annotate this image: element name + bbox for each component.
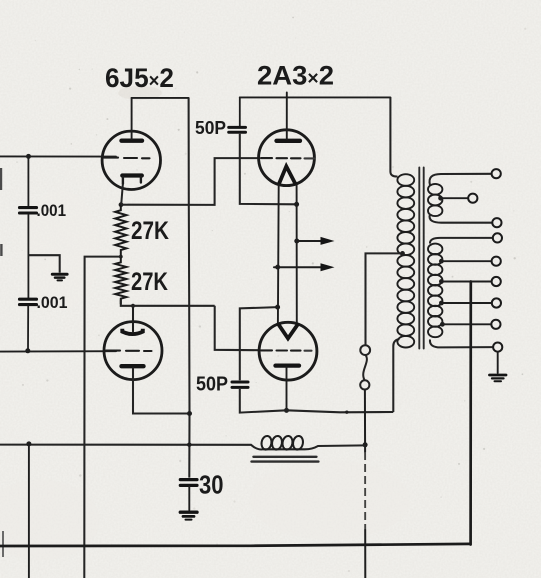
transformer T1 primary winding — [397, 174, 414, 347]
wire filament lead left — [277, 185, 280, 324]
node R1/R2 midpoint — [119, 255, 123, 259]
triode V2b (2A3 lower) envelope — [259, 322, 317, 380]
svg-text:6J5×2: 6J5×2 — [105, 63, 174, 93]
wire C4 to plate bus — [240, 389, 393, 413]
node plate wire / vertical bus junction — [187, 411, 192, 416]
node bridge / filament left junction — [275, 305, 280, 310]
terminal 8 — [491, 320, 500, 329]
terminal 6 — [492, 277, 501, 286]
wire secondary B tap 1 — [439, 259, 491, 264]
wire B+ rail through choke — [0, 445, 365, 450]
svg-text:.001: .001 — [37, 294, 68, 312]
transformer T1 core — [419, 168, 423, 349]
wire rail down to C3 — [239, 97, 241, 125]
svg-text:50P: 50P — [195, 118, 226, 138]
wire secondary B tap 4 — [440, 322, 491, 327]
triode V1b cathode (top) — [122, 329, 143, 334]
terminal 5 — [492, 257, 501, 266]
triode V2a grid dashes — [261, 157, 315, 159]
wire 2A3 top rail — [240, 96, 391, 98]
node cathode V1a / R1 junction — [119, 202, 124, 207]
wire plate bus up to primary bottom — [393, 339, 399, 412]
wire secondary B tap 3 — [439, 301, 492, 306]
svg-text:50P: 50P — [196, 374, 228, 396]
terminal 7 — [492, 298, 501, 307]
wire secondary B top lead — [430, 238, 493, 244]
wire V1a grid input — [0, 155, 116, 157]
resistor R2 27K — [115, 257, 126, 304]
node primary tap — [400, 251, 405, 256]
wire left tap down off-page — [28, 444, 30, 578]
terminal 1 — [492, 169, 501, 178]
triode V2a filament — [279, 166, 296, 184]
wire secondary A tap — [438, 196, 468, 201]
wire V2b plate lead down — [286, 367, 288, 410]
flexible link upper circle — [360, 345, 370, 355]
capacitor C1 .001 — [20, 208, 37, 213]
node V2b plate / bus junction — [284, 408, 289, 413]
transformer T1 secondary section A — [428, 184, 442, 216]
capacitor C3 50P — [229, 127, 246, 132]
svg-text:2A3×2: 2A3×2 — [257, 61, 334, 91]
svg-text:27K: 27K — [131, 268, 168, 296]
flexible link lower circle — [360, 380, 369, 389]
arrow filament supply 2 — [274, 263, 335, 271]
triode V2b grid dashes — [261, 349, 312, 351]
wire R1-R2 midpoint to left and down off-page — [84, 257, 121, 578]
wire V1b plate down and right — [133, 368, 190, 414]
arrow filament supply 1 — [297, 237, 335, 245]
wire R2 bottom to V1b rail — [121, 300, 215, 306]
ground (left small) — [52, 274, 67, 280]
node B+ rail left tap — [26, 441, 31, 446]
wire V1b top lead — [132, 306, 134, 332]
node V1b top junction — [131, 304, 135, 308]
triode V1a plate bar — [122, 138, 143, 142]
triode V2a plate bar — [277, 139, 301, 143]
ground (right) — [490, 375, 507, 381]
wire top rail down to primary top — [390, 97, 397, 176]
triode V1b plate bar (bottom) — [122, 364, 144, 368]
node grid1 / C1 junction — [26, 154, 31, 159]
triode V1a (6J5 upper) envelope — [102, 131, 160, 189]
wire secondary B bottom lead — [430, 340, 493, 348]
wire long vertical bus x=189 — [188, 98, 191, 478]
wire V1b grid input — [0, 350, 116, 352]
capacitor C4 50P — [232, 382, 248, 387]
wire bridge filament to C4 — [240, 307, 278, 380]
node C2 / grid2 junction — [25, 348, 30, 353]
capacitor C2 .001 — [20, 299, 37, 304]
node arrow2 junction — [275, 265, 280, 270]
triode V1b (6J5 lower) envelope — [104, 322, 162, 380]
terminal 4 — [493, 233, 502, 242]
wire: scan edge artifacts left border — [1, 168, 3, 557]
wire C2 to grid2 — [27, 306, 29, 351]
ground (below C5) — [180, 512, 197, 519]
svg-text:.001: .001 — [37, 202, 67, 220]
wire V2a plate to rail with overshoot — [286, 93, 288, 140]
node 30uF cap rail junction — [187, 443, 191, 447]
svg-text:30: 30 — [199, 470, 224, 500]
resistor R1 27K — [115, 205, 126, 256]
wire primary center tap — [366, 253, 403, 345]
triode V1a grid dashes — [104, 157, 150, 160]
wire C1 to C2 vertical — [27, 215, 29, 298]
wire terminal 9 to ground — [497, 352, 499, 373]
triode V2a (2A3 upper) envelope — [259, 130, 315, 186]
wire ground branch — [28, 255, 59, 272]
wire C5 to ground — [188, 487, 190, 510]
triode V2b filament (V at top) — [278, 324, 299, 339]
node B+ rail / tap junction — [363, 442, 368, 447]
node bus blob — [345, 410, 348, 413]
wire bottom ground bus — [0, 544, 470, 546]
wire secondary B tap 2 — [439, 279, 491, 284]
wire secondary A top lead — [429, 174, 491, 185]
wire filament lead right — [296, 185, 298, 323]
choke L1 winding — [260, 435, 304, 450]
wire V1a plate to top rail — [131, 98, 133, 139]
choke L1 core bars — [252, 457, 319, 462]
transformer T1 secondary section B — [428, 244, 442, 338]
triode V2b plate bar (bottom) — [276, 363, 300, 367]
svg-text:27K: 27K — [131, 217, 169, 245]
wire 6J5 top rail — [132, 97, 189, 99]
wire C3 down to filament bridge — [240, 134, 297, 205]
capacitor C5 30 — [180, 480, 197, 486]
triode V1a cathode — [122, 176, 142, 184]
wire R1 top junction to V2a grid — [121, 158, 259, 205]
node arrow1 junction — [294, 239, 299, 244]
flexible link S wire — [363, 355, 367, 380]
triode V1b grid dashes — [106, 350, 152, 352]
terminal 9 — [493, 343, 502, 352]
wire V2b grid feed (down then right) — [215, 306, 260, 350]
wire speaker common thick vertical — [469, 282, 472, 545]
wire link down through rails to bottom edge — [364, 390, 366, 578]
terminal 2 — [468, 194, 477, 203]
wire C1 upper lead — [27, 156, 29, 206]
wire V1a cathode lead — [121, 184, 123, 205]
terminal 3 — [492, 218, 501, 227]
node C3 bridge / filament junction — [294, 202, 299, 207]
wire secondary A bottom lead — [430, 214, 493, 223]
